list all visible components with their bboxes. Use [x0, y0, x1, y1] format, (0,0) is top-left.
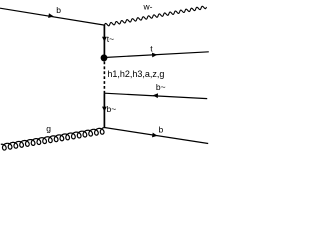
node arrow on b~ propagator — [102, 107, 107, 112]
wire incoming gluon coil — [1, 128, 105, 151]
node arrow on b~ line pointing left — [153, 93, 158, 98]
node arrow on b line — [48, 13, 54, 18]
svg-text:w-: w- — [143, 2, 153, 12]
svg-text:t~: t~ — [107, 34, 114, 44]
wire outgoing b~ quark line (upper right) — [104, 93, 207, 98]
svg-text:b~: b~ — [107, 104, 117, 114]
svg-text:b: b — [159, 124, 164, 134]
wire b~ propagator vertical lower — [103, 93, 105, 128]
svg-text:b~: b~ — [156, 82, 166, 92]
wire outgoing t quark line — [104, 52, 208, 58]
wire t~ propagator vertical — [103, 25, 105, 55]
node arrow on t line — [152, 53, 157, 58]
wire dashed scalar propagator h1,h2,h3,a,z,g — [103, 62, 105, 94]
node arrow on t~ propagator — [102, 37, 107, 42]
node arrow on bottom b line — [152, 133, 158, 138]
wire W- boson wavy line — [105, 6, 207, 26]
svg-text:b: b — [56, 5, 61, 15]
node blob vertex — [101, 54, 108, 61]
svg-text:g: g — [46, 123, 51, 133]
wire incoming b quark line — [0, 8, 105, 25]
wire outgoing b quark line (bottom) — [104, 128, 208, 144]
svg-text:h1,h2,h3,a,z,g: h1,h2,h3,a,z,g — [107, 69, 164, 79]
